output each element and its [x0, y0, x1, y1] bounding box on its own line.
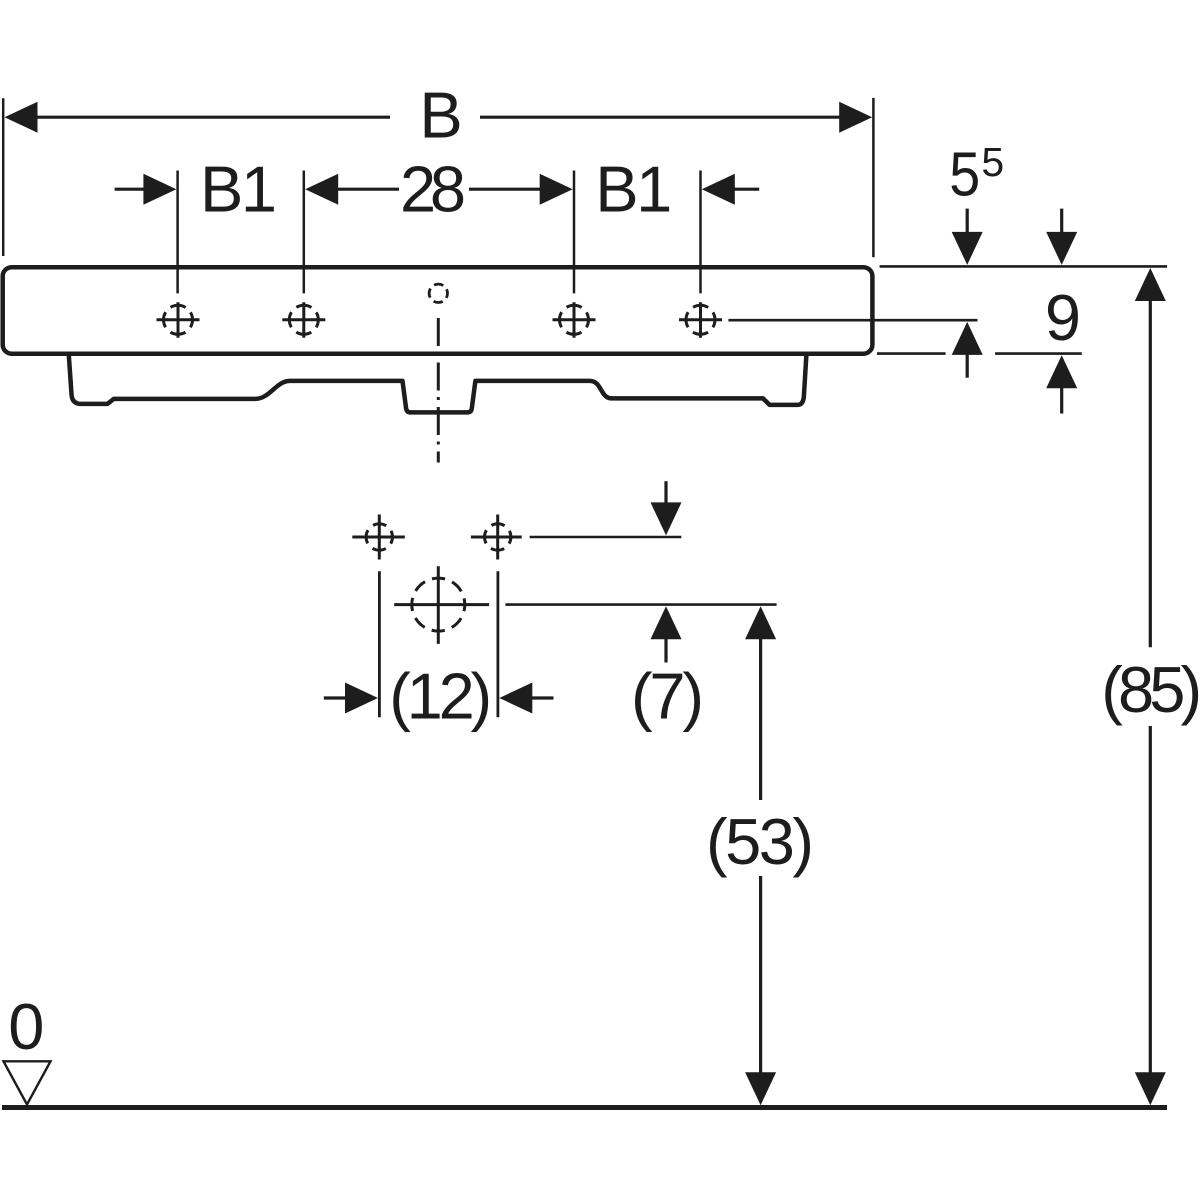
svg-text:(85): (85)	[1101, 653, 1200, 726]
svg-text:B1: B1	[595, 153, 672, 226]
svg-text:(7): (7)	[631, 660, 704, 733]
svg-text:9: 9	[1045, 281, 1081, 354]
svg-text:0: 0	[8, 990, 44, 1063]
svg-text:B: B	[419, 79, 462, 152]
svg-text:5: 5	[949, 141, 980, 210]
svg-text:28: 28	[400, 153, 466, 226]
svg-text:B1: B1	[200, 153, 277, 226]
svg-text:(12): (12)	[389, 660, 492, 733]
svg-text:5: 5	[981, 139, 1004, 185]
svg-text:(53): (53)	[706, 805, 814, 878]
